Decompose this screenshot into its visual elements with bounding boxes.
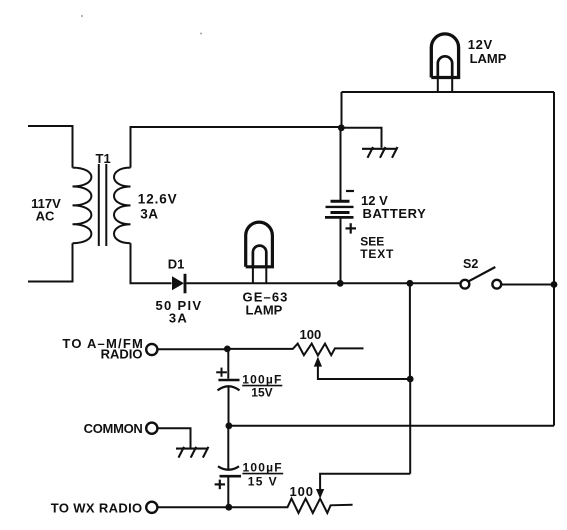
capacitor C1 plus sign (216, 368, 227, 377)
terminal: COMMON (146, 423, 157, 434)
svg-text:BATTERY: BATTERY (363, 206, 427, 221)
wire: riser from bus down to R1 wiper line (409, 283, 411, 379)
node: wiper line to riser junction (407, 376, 414, 383)
label: 12.6V 3A (138, 192, 178, 222)
battery plus sign (346, 223, 357, 233)
rheostat R2 wiper arrow (316, 474, 410, 499)
lamp 12V envelope (431, 34, 458, 78)
wire: top rail (342, 91, 555, 93)
svg-text:3A: 3A (169, 311, 188, 326)
battery B1 plates (325, 201, 354, 217)
capacitor C1 plates (218, 380, 240, 390)
svg-text:15V: 15V (251, 386, 272, 400)
svg-text:TO WX RADIO: TO WX RADIO (51, 500, 143, 515)
label: TO A-M/FM RADIO (62, 336, 144, 361)
capacitor C2 bottom lead (227, 476, 229, 507)
wire: switch to right rail (501, 284, 554, 286)
svg-text:LAMP: LAMP (246, 303, 283, 318)
scan speck (200, 33, 202, 35)
node: C1 tap on A-M/FM line (224, 346, 231, 353)
svg-text:100µF: 100µF (242, 373, 282, 387)
wire: ground branch (342, 128, 382, 148)
lamp 12V legs (438, 78, 452, 93)
svg-text:COMMON: COMMON (84, 421, 143, 436)
scan speck (81, 15, 83, 17)
wire: AC primary bottom stub (28, 243, 73, 281)
wire: secondary bottom lead (131, 243, 172, 283)
node: C2 tap on WX line (225, 504, 232, 511)
wire: bus from diode to switch (187, 282, 460, 284)
svg-text:15 V: 15 V (248, 475, 278, 489)
node: switch to right rail junction (551, 281, 558, 288)
label divider C2 (242, 473, 283, 475)
svg-text:T1: T1 (96, 151, 111, 166)
diode D1 (172, 274, 185, 294)
wire: A-M/FM feed line (158, 348, 228, 350)
svg-text:RADIO: RADIO (101, 347, 143, 362)
switch S2 (461, 267, 502, 289)
terminal: TO WX RADIO (146, 502, 157, 513)
label: GE-63 LAMP (243, 289, 289, 317)
node: junction of secondary, riser, battery, ground branch (338, 124, 345, 131)
svg-text:100µF: 100µF (243, 460, 283, 474)
label: SEE TEXT (360, 235, 394, 261)
label: C1 100uF 15V (242, 373, 282, 400)
battery B1 bottom lead (340, 218, 342, 284)
capacitor C2 plus sign (215, 480, 225, 490)
svg-text:D1: D1 (168, 257, 185, 272)
svg-text:3A: 3A (140, 207, 158, 222)
svg-text:100: 100 (300, 327, 322, 342)
svg-text:TEXT: TEXT (360, 247, 394, 261)
ground (chassis) near battery (362, 147, 398, 158)
wire: AC primary top stub (28, 126, 73, 168)
capacitor C2 100uF: top lead (227, 426, 229, 470)
svg-text:AC: AC (36, 209, 55, 224)
rheostat R1 wiper arrow (314, 357, 410, 379)
wire: right vertical rail (553, 92, 555, 426)
wire: WX feed line (158, 506, 229, 508)
rheostat R2 100 ohm: body (229, 499, 353, 513)
wire: riser from node to top rail (341, 92, 343, 128)
lamp 12V inner bulb (438, 56, 452, 77)
transformer T1 secondary winding (114, 168, 131, 244)
capacitor C2 plates (218, 466, 241, 476)
label divider C1 (242, 385, 282, 387)
svg-text:S2: S2 (463, 257, 478, 271)
label: 50 PIV 3A (156, 298, 203, 326)
transformer T1 primary winding (73, 168, 92, 244)
svg-text:LAMP: LAMP (470, 51, 507, 66)
label: 12V LAMP (468, 37, 507, 66)
battery B1 12V: top lead (340, 128, 342, 201)
svg-text:12.6V: 12.6V (138, 192, 178, 207)
svg-text:12V: 12V (468, 37, 493, 52)
capacitor C1 100uF: top lead (227, 349, 229, 379)
lamp GE-63 inner bulb (253, 246, 266, 267)
label: 12 V BATTERY (361, 193, 426, 221)
terminal: TO A-M/FM RADIO (146, 344, 157, 355)
label: 117V AC (31, 196, 61, 224)
ground (chassis) at COMMON (176, 447, 209, 458)
node: wiper riser to bus junction (407, 280, 414, 287)
node: battery to bus junction (337, 280, 344, 287)
wire: COMMON to ground (158, 428, 191, 447)
lamp GE-63 legs (253, 267, 266, 284)
svg-text:100: 100 (290, 484, 314, 499)
battery minus sign (346, 190, 354, 192)
rheostat R1 100 ohm: body (227, 344, 363, 356)
capacitor C1 bottom lead (228, 387, 230, 426)
wire: secondary top lead (131, 127, 342, 168)
wire: riser from R1 wiper junction down to R2 wiper line (409, 379, 411, 474)
transformer T1 core (99, 164, 107, 246)
node: junction between C1 and C2 (226, 422, 233, 429)
wire: middle rail to right vertical rail (229, 425, 554, 427)
label: C2 100uF 15 V (243, 460, 283, 488)
lamp GE-63 envelope (246, 222, 273, 267)
